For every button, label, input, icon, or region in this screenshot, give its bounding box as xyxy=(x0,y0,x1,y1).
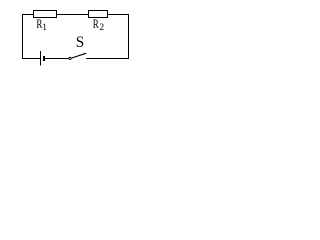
svg-text:2: 2 xyxy=(99,23,104,33)
background xyxy=(0,0,153,70)
switch blade xyxy=(72,53,86,58)
wire top xyxy=(22,14,128,16)
wire left xyxy=(22,14,24,59)
resistor R1 xyxy=(34,11,57,18)
switch terminal circle xyxy=(69,57,71,59)
svg-text:R: R xyxy=(93,17,99,31)
battery long plate xyxy=(40,51,42,66)
wire battery to switch xyxy=(45,58,69,60)
svg-text:1: 1 xyxy=(42,23,47,33)
wire bottom-left (corner to battery) xyxy=(22,58,41,60)
svg-text:S: S xyxy=(76,34,85,51)
resistor R2 xyxy=(89,11,108,18)
wire switch to corner xyxy=(86,58,129,60)
wire right xyxy=(128,14,130,59)
battery short plate xyxy=(43,56,45,61)
